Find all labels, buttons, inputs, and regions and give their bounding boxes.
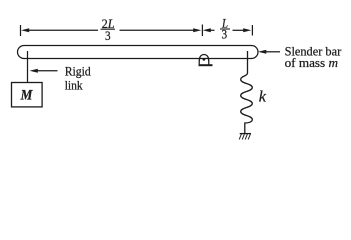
svg-text:M: M [20, 88, 33, 104]
svg-text:k: k [259, 88, 267, 105]
svg-text:3: 3 [222, 27, 228, 42]
svg-text:Rigid: Rigid [65, 63, 91, 78]
svg-text:link: link [65, 78, 83, 93]
svg-text:of mass m: of mass m [285, 55, 338, 70]
svg-text:3: 3 [105, 28, 111, 43]
